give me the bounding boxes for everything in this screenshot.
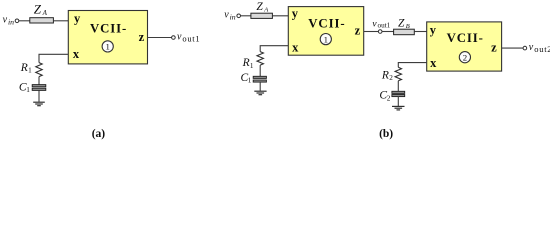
wire z output: [148, 37, 172, 39]
impedance Z_A: [251, 13, 273, 18]
label R1: [242, 57, 254, 70]
svg-text:A: A: [42, 9, 48, 17]
wire: [53, 20, 68, 22]
terminal v_out1: [172, 36, 176, 40]
svg-text:2: 2: [389, 74, 393, 82]
circled number 1: [102, 41, 113, 52]
svg-text:Z: Z: [256, 1, 263, 13]
wire: [38, 90, 40, 101]
wire: [240, 15, 250, 17]
impedance Z_B: [394, 29, 415, 35]
wire: [38, 77, 40, 85]
svg-text:(b): (b): [379, 128, 393, 140]
resistor R2: [395, 67, 401, 81]
circled number 1: [320, 34, 331, 45]
node v_in: [224, 10, 236, 22]
terminal v_in: [237, 14, 241, 18]
wire: [259, 82, 261, 91]
resistor R1: [36, 63, 42, 77]
svg-text:2: 2: [387, 94, 391, 102]
svg-text:v: v: [529, 42, 534, 53]
wire: [259, 65, 261, 76]
svg-text:in: in: [8, 17, 14, 26]
svg-text:out2: out2: [534, 44, 550, 54]
capacitor C1: [253, 76, 266, 82]
svg-text:Z: Z: [398, 17, 405, 29]
label Z_A: [34, 1, 48, 17]
wire z output: [502, 47, 524, 49]
label C1: [241, 72, 252, 85]
terminal v_out1: [378, 30, 382, 34]
svg-text:v: v: [3, 15, 8, 26]
svg-text:in: in: [230, 12, 236, 21]
label R2: [381, 70, 393, 83]
wire: [397, 97, 399, 106]
svg-text:out1: out1: [378, 22, 391, 30]
svg-text:R: R: [242, 57, 250, 69]
svg-text:1: 1: [324, 34, 328, 44]
ground: [254, 91, 266, 95]
label C2: [379, 90, 390, 103]
svg-text:1: 1: [105, 42, 109, 52]
svg-text:z: z: [139, 30, 145, 44]
svg-text:x: x: [73, 47, 80, 61]
svg-text:A: A: [263, 6, 268, 13]
wire: [382, 31, 394, 33]
svg-text:x: x: [292, 40, 299, 54]
wire x port: [39, 54, 68, 62]
svg-text:z: z: [491, 41, 497, 55]
VCII block U1: [288, 7, 363, 56]
svg-text:y: y: [292, 6, 299, 20]
svg-text:R: R: [381, 70, 389, 82]
svg-text:B: B: [406, 23, 410, 30]
svg-text:(a): (a): [92, 128, 106, 140]
label v_out1: [177, 32, 200, 44]
svg-text:out1: out1: [182, 33, 200, 43]
capacitor C1: [32, 85, 46, 91]
svg-text:1: 1: [28, 67, 32, 75]
wire z to v_out1: [364, 31, 379, 33]
terminal v_out2: [523, 46, 527, 50]
svg-text:x: x: [430, 56, 437, 70]
capacitor C2: [392, 91, 405, 96]
svg-text:v: v: [177, 32, 182, 43]
svg-text:VCII-: VCII-: [308, 16, 345, 30]
label R1: [20, 62, 32, 75]
svg-text:VCII-: VCII-: [447, 31, 484, 45]
svg-text:y: y: [74, 12, 81, 26]
svg-text:Z: Z: [34, 1, 42, 16]
VCII block U1: [68, 11, 147, 64]
wire x port: [398, 63, 426, 68]
wire x port: [260, 46, 288, 52]
svg-text:R: R: [20, 62, 28, 74]
terminal v_in: [15, 19, 19, 23]
label Z_A: [256, 1, 268, 14]
resistor R1: [257, 52, 263, 66]
label Z_B: [398, 17, 410, 30]
circled number 2: [459, 52, 470, 63]
svg-text:1: 1: [248, 77, 252, 85]
VCII block U2: [427, 22, 502, 71]
ground: [33, 102, 45, 106]
svg-text:y: y: [430, 23, 437, 37]
node v_in: [3, 15, 15, 27]
svg-text:v: v: [224, 10, 229, 21]
wire: [397, 81, 399, 92]
svg-text:VCII-: VCII-: [90, 21, 127, 35]
label v_out2: [529, 42, 550, 54]
wire: [19, 20, 30, 22]
label C1: [19, 81, 30, 94]
wire: [414, 31, 426, 33]
impedance Z_A: [30, 18, 54, 23]
svg-text:2: 2: [463, 52, 467, 62]
svg-text:1: 1: [26, 86, 30, 94]
svg-text:z: z: [355, 24, 361, 38]
ground: [392, 106, 405, 110]
label v_out1: [372, 19, 390, 29]
svg-text:1: 1: [250, 62, 254, 70]
wire: [272, 15, 288, 17]
